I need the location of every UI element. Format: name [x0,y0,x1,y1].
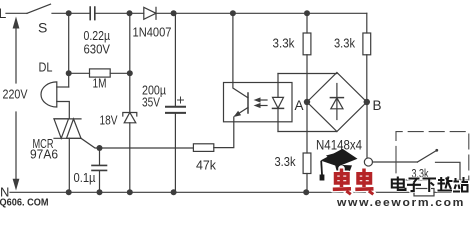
lamp DL body [41,82,57,107]
wire top rail down to lamp node [68,13,70,87]
junction dot lamp node [66,70,72,76]
switch S blade [27,4,51,13]
optocoupler light arrow 2 [258,105,267,107]
triac left triangle [54,119,69,138]
triac gate lead [81,138,100,148]
optocoupler LED cathode lead down [277,108,279,131]
triac main terminal 2 wire down to rail [68,138,70,192]
capacitor 0.1u top lead [99,148,101,165]
top rail wire diode to right corner [156,12,367,14]
svg-text:47k: 47k [196,158,216,173]
svg-text:35V: 35V [142,95,160,110]
junction dot top rail x69 [66,10,72,16]
resistor 3.3k R2 body [363,33,371,55]
resistor 3.3k R1 top lead [306,13,308,33]
svg-text:97A6: 97A6 [30,148,58,162]
node B dot [364,99,370,105]
triac right triangle [67,119,82,138]
junction dot 1M zener column [127,70,133,76]
watermark character chong 2 [355,169,373,195]
watermark graduation cap board [321,149,358,167]
svg-text:A: A [295,98,304,113]
svg-text:630V: 630V [84,42,111,57]
svg-text:1N4007: 1N4007 [133,25,172,40]
wire capacitor to diode D1 [96,12,144,14]
node A dot [304,99,310,105]
bottom rail N [10,191,460,193]
bridge rectifier N4148x4 diamond [307,73,367,132]
triac MCR97A6 top bar [54,118,81,120]
junction dot bottom rail x129 [127,189,133,195]
capacitor 0.1u bottom lead [99,171,101,193]
watermark character chong 1 [333,169,351,195]
dashed enclosure box [396,132,469,180]
junction dot bottom rail x99 [97,189,103,195]
optocoupler LED anode lead [277,74,279,98]
open terminal circle [364,158,372,166]
wire R5 to bottom rail [306,174,308,193]
resistor 3.3k R6 body [414,189,434,196]
top rail right corner down [366,13,368,33]
triac bottom bar [54,137,81,139]
capacitor 200u bottom lead [174,114,176,192]
svg-text:3.3k: 3.3k [275,154,296,169]
220V dimension arrow lower shaft [15,112,17,179]
watermark characters chong chong halo [333,169,374,195]
optocoupler LED triangle [273,97,284,108]
capacitor 200u plates [166,106,185,108]
lamp DL top lead [57,86,69,88]
bridge inner diode line [336,84,338,120]
wire lamp node to resistor 1M [69,72,90,74]
wire R2 to node B [366,55,368,102]
svg-text:18V: 18V [100,113,118,128]
optocoupler LED cathode bar [273,107,284,109]
junction dot top rail x129 [127,10,133,16]
wire LED cathode to bridge bottom [278,131,337,133]
wire 1M right side to zener column [110,72,130,74]
svg-text:S: S [38,20,47,36]
svg-text:3.3k: 3.3k [273,36,295,51]
optocoupler transistor emitter arrowhead [234,111,242,117]
wire LED anode to bridge top [278,73,337,75]
junction dot top rail x233 [230,10,236,16]
junction dot top rail x307 [304,10,310,16]
zener 18V wire down to rail [129,123,131,193]
wire node B down to terminal [366,105,368,158]
optocoupler transistor emitter [235,108,248,116]
svg-text:DL: DL [39,60,53,75]
lamp DL bottom lead [57,102,70,119]
svg-text:Q606. COM: Q606. COM [0,197,49,209]
resistor 3.3k R5 body [303,153,311,174]
hook switch right wire [436,162,461,192]
svg-text:220V: 220V [3,87,28,102]
220V arrow up head [13,17,20,29]
wire R1 to node A [306,55,308,102]
zener 18V triangle [124,113,136,123]
hook switch blade [417,150,436,162]
bridge inner diode cathode bar [330,97,343,99]
watermark graduation cap tassel [320,161,323,175]
wire switch to capacitor C1 [52,12,89,14]
wire terminal to hook switch [373,161,418,163]
resistor 1M body [90,69,111,77]
watermark graduation cap tassel knob [320,175,325,181]
bridge inner diode triangle [331,98,343,109]
optocoupler light arrow 1 [258,99,267,101]
svg-text:N4148x4: N4148x4 [316,138,362,153]
junction dot bottom rail x173 [171,189,177,195]
svg-text:3.3k: 3.3k [334,36,355,51]
junction dot gate node [97,145,103,151]
wire node A down to resistor R5 [306,102,308,153]
optocoupler transistor base bar [247,93,249,113]
220V arrow down head [13,179,20,191]
diode D1 1N4007 [144,7,156,19]
watermark text dianzi xiazaizhan [392,177,468,193]
zener 18V cathode bar with ticks [123,113,137,117]
junction dot top rail x174 [171,10,177,16]
watermark graduation cap head [335,165,352,174]
capacitor 0.1u plates [92,165,107,170]
gate node wire to 47k [100,147,194,149]
svg-text:0.1µ: 0.1µ [74,170,96,185]
electrolytic capacitor 200u top lead [174,13,176,106]
optocoupler transistor collector wire from top rail [233,13,248,98]
zener diode 18V wire from top rail [129,13,131,112]
capacitor 200u plus sign [178,97,184,103]
capacitor C1 0.22u plates [90,7,95,20]
resistor 3.3k R1 body [303,33,311,55]
junction dot bottom rail x306 [303,189,309,195]
wire L to switch pivot [6,12,27,14]
resistor 47k body [193,144,213,152]
junction dot bottom rail x69 [66,189,72,195]
svg-text:1M: 1M [93,76,107,91]
svg-text:www.eeworm.com: www.eeworm.com [336,197,465,208]
wire 47k to optocoupler emitter [214,117,234,148]
optocoupler U1 box [224,83,293,122]
220V dimension arrow upper shaft [15,27,17,83]
svg-text:B: B [373,98,382,113]
